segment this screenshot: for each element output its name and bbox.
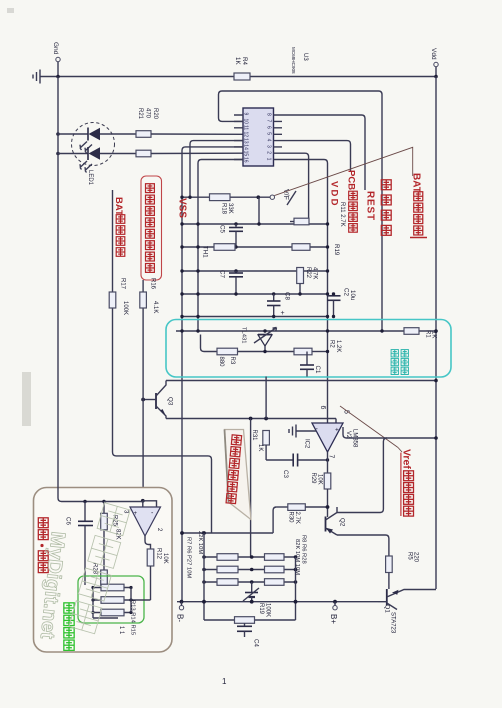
svg-text:14: 14 (243, 144, 249, 150)
svg-text:R2: R2 (329, 340, 335, 348)
svg-text:R13 R14 R15: R13 R14 R15 (130, 600, 136, 635)
wire route pin1 down long rail (288, 160, 328, 424)
resistor R12 10K (147, 548, 168, 600)
svg-text:R8 R6 R28: R8 R6 R28 (301, 535, 307, 564)
svg-text:6: 6 (266, 126, 272, 129)
label BAT temperature monitor red (410, 173, 427, 238)
svg-text:B-: B- (176, 614, 185, 622)
resistor R19 100K (235, 603, 271, 623)
resistor R5 220 (386, 552, 419, 589)
label left divider values (186, 531, 204, 578)
wire divider row3 (202, 580, 297, 584)
wire divider row2 (202, 568, 297, 572)
svg-text:3: 3 (266, 145, 272, 148)
IC U3 right pins (274, 115, 289, 160)
capacitor C3 (266, 454, 329, 479)
svg-text:470: 470 (145, 108, 151, 119)
svg-text:22K 10M: 22K 10M (197, 531, 203, 554)
svg-text:100K: 100K (265, 603, 271, 617)
node VF terminal (270, 189, 296, 205)
svg-text:220: 220 (413, 552, 419, 563)
resistor R9 (265, 566, 285, 573)
svg-text:LED1: LED1 (87, 170, 93, 186)
wire Q2 collector to upper node (337, 438, 387, 513)
svg-text:10u: 10u (349, 290, 356, 301)
label charge voltage-limit detect red box (225, 430, 251, 520)
svg-text:R20: R20 (152, 108, 158, 120)
svg-text:+: + (335, 427, 339, 434)
resistor R18 33K (210, 194, 234, 215)
svg-text:R19: R19 (333, 244, 340, 256)
svg-text:R31: R31 (251, 430, 257, 442)
svg-text:1K: 1K (257, 444, 263, 451)
svg-text:R7 R6 P27 10M: R7 R6 P27 10M (186, 537, 192, 578)
wire op-amp U4 output (145, 536, 151, 549)
svg-text:VDD: VDD (329, 181, 340, 208)
resistor R30 2.7K (277, 504, 330, 524)
svg-text:R22: R22 (305, 267, 311, 279)
svg-text:880: 880 (218, 357, 224, 368)
svg-text:REST: REST (365, 191, 376, 221)
op-amp IC2 (304, 423, 358, 459)
svg-text:9: 9 (243, 113, 249, 116)
IC U3 left pins (234, 115, 243, 160)
wire divider left rail (203, 533, 205, 620)
wire route pin4 right (288, 141, 351, 171)
ground (33, 70, 40, 84)
svg-text:Vdd: Vdd (430, 48, 437, 60)
svg-text:Gnd: Gnd (52, 42, 59, 55)
label regulated reference voltage teal (391, 350, 408, 375)
resistor R17 100K (109, 278, 128, 315)
svg-text:C6: C6 (65, 517, 72, 525)
svg-text:R1: R1 (425, 330, 431, 338)
svg-text:R30: R30 (288, 512, 294, 524)
resistor R13 (101, 584, 124, 591)
svg-text:6: 6 (319, 406, 326, 410)
svg-text:TL431: TL431 (241, 327, 247, 343)
wire bus2 thermistor line (180, 245, 329, 248)
svg-text:IC2: IC2 (304, 439, 310, 449)
resistor R26 (92, 563, 108, 590)
svg-text:R4: R4 (241, 57, 248, 65)
svg-text:4.7K: 4.7K (312, 267, 318, 279)
wire right Vdd rail down (435, 77, 437, 590)
diode LED top (56, 128, 136, 154)
wire R21 to IC pin15 (151, 152, 243, 154)
wire lower regulator line (201, 335, 330, 354)
capacitor C2 10u (327, 288, 356, 318)
resistor R14 (101, 597, 124, 604)
IC U3 label MC68HC908 (291, 47, 308, 74)
wire op-amp U4 top node (102, 499, 156, 507)
svg-text:R16: R16 (150, 278, 156, 290)
svg-text:VSS: VSS (177, 198, 188, 218)
top supply wire (40, 76, 436, 78)
wire op-amp plus input line (166, 406, 350, 424)
wire sampling mid rail drop (250, 419, 252, 558)
wire op-amp output (327, 452, 329, 473)
wire R17 to lower section (113, 452, 212, 533)
wire bus5 (180, 315, 329, 318)
resistor R7 (217, 554, 238, 561)
ground at op-amp inverting input (289, 425, 317, 438)
svg-text:33K: 33K (227, 203, 233, 214)
svg-text:+: + (134, 511, 138, 517)
wire battery main line (177, 600, 378, 604)
watermark digital home outline (97, 503, 130, 536)
svg-text:4: 4 (266, 139, 272, 142)
svg-text:MC68HC908: MC68HC908 (291, 47, 296, 74)
svg-text:100K: 100K (122, 301, 128, 315)
svg-text:C5: C5 (219, 225, 226, 233)
label limit current constant current red (38, 518, 48, 528)
label charge control red (381, 180, 391, 190)
transistor Q3 (141, 381, 173, 419)
resistor R16 4.1K (140, 278, 158, 313)
svg-text:R21: R21 (137, 108, 143, 120)
capacitor C1 (300, 352, 321, 377)
wire R17 branch (112, 190, 114, 452)
svg-text:82K 10M 10M: 82K 10M 10M (294, 539, 300, 575)
label current sampling green (64, 603, 74, 613)
node B- terminal (176, 602, 185, 623)
resistor R19 (292, 244, 340, 256)
svg-text:R3: R3 (229, 357, 235, 365)
capacitor C6 (65, 500, 94, 585)
svg-text:1K: 1K (431, 331, 437, 338)
svg-text:C7: C7 (219, 270, 226, 278)
svg-text:Q2: Q2 (339, 518, 346, 527)
svg-text:B+: B+ (329, 614, 338, 624)
capacitor C7 (219, 270, 244, 294)
svg-text:STA723: STA723 (390, 612, 396, 634)
resistor R21 (136, 108, 151, 157)
node Gnd terminal (52, 42, 60, 78)
svg-text:BAT: BAT (411, 173, 422, 193)
svg-text:11: 11 (243, 125, 249, 130)
wire route pin14 down long left rail (182, 147, 243, 602)
svg-text:1.2K: 1.2K (335, 340, 341, 352)
svg-text:10K: 10K (317, 474, 323, 485)
wire bus3 (180, 269, 329, 272)
wire Q3 collector line below cyan box (166, 379, 438, 383)
IC U3 pin numbers left 9-16 (243, 113, 249, 163)
transistor Q1 STA723 (378, 589, 436, 634)
wire VF bus (180, 195, 270, 199)
svg-text:5: 5 (266, 132, 272, 135)
resistor R27 (217, 579, 238, 586)
wire route pin8 right (288, 115, 365, 190)
svg-text:1: 1 (266, 158, 272, 161)
wire route pin10 loop over IC to right column (219, 91, 383, 331)
battery cell symbol (243, 588, 259, 602)
svg-text:8: 8 (266, 113, 272, 116)
wire R20 to IC pin12 (151, 133, 243, 135)
resistor R11 body (290, 218, 309, 225)
svg-text:R18: R18 (221, 203, 227, 215)
wire bus1 (180, 222, 329, 225)
capacitor C8 electrolytic (267, 292, 291, 317)
wire Q2 emitter to R5 (337, 535, 389, 556)
wire sampling row3 (91, 611, 132, 614)
resistor R20 (136, 108, 158, 137)
resistor R28 (265, 579, 285, 586)
node Vdd terminal (430, 48, 438, 78)
svg-text:Q1: Q1 (384, 605, 391, 614)
resistor R2 1.2K (294, 340, 341, 355)
svg-text:10: 10 (243, 119, 249, 125)
transistor Q2 (326, 507, 346, 535)
wire divider right rail (295, 557, 297, 620)
regulator TL431 (241, 327, 277, 352)
IC U3 pin numbers right 8-1 (266, 113, 272, 161)
wire annotation diagonal from VF to BAT temp label (274, 147, 412, 195)
resistor R1 1K (404, 328, 437, 339)
svg-text:C1: C1 (314, 366, 321, 374)
resistor R15 (101, 609, 124, 616)
svg-text:7: 7 (266, 120, 272, 123)
svg-text:1 1: 1 1 (118, 626, 124, 635)
wire sampling row1 (91, 586, 132, 589)
label charge cutoff current detect red box (141, 176, 162, 280)
current sampling green box (78, 576, 144, 623)
resistor R4 1K (234, 57, 250, 80)
wire route pin2 right (288, 153, 309, 218)
wire op-amp pin5 to Vdd rail (343, 427, 438, 440)
IC U3 microcontroller body (243, 108, 274, 166)
scan artifact left edge (22, 372, 31, 426)
wire route pin16 down to regulator bus (198, 160, 243, 332)
LED1 dashed circle (72, 123, 115, 186)
svg-text:10K: 10K (162, 553, 168, 564)
svg-text:PCB: PCB (346, 170, 357, 190)
svg-text:BAT: BAT (113, 197, 124, 216)
wire R16 branch (142, 280, 144, 501)
svg-text:2.7K: 2.7K (294, 512, 300, 524)
wire Gnd rail into box (58, 77, 104, 502)
cyan highlight box (166, 320, 451, 378)
wire R19 line (204, 619, 296, 621)
capacitor C5 (219, 224, 244, 247)
resistor R31 1K (251, 430, 269, 461)
svg-text:U3: U3 (302, 53, 308, 61)
svg-text:R5: R5 (407, 552, 413, 560)
op-amp U4 (123, 507, 163, 536)
svg-text:C2: C2 (343, 288, 350, 296)
svg-text:Q3: Q3 (167, 397, 174, 406)
wire divider mid rail lower (251, 582, 253, 592)
svg-text:4.1K: 4.1K (152, 301, 158, 313)
svg-text:R12: R12 (156, 548, 162, 560)
diode LED bottom (56, 147, 136, 173)
label Vref reference voltage red (398, 448, 413, 517)
svg-text:R19: R19 (258, 603, 264, 615)
svg-text:1K: 1K (234, 57, 241, 65)
wire sampling rails (93, 588, 131, 619)
resistor R6 (217, 566, 238, 573)
svg-text:R29: R29 (310, 473, 316, 485)
label R11 2.7K (339, 202, 345, 227)
resistor R25 82K (101, 502, 121, 571)
svg-text:C3: C3 (282, 470, 289, 478)
svg-text:13: 13 (243, 138, 249, 144)
wire regulator bus (176, 329, 438, 333)
wire VF to bus1 stub (258, 197, 260, 224)
resistor R22 4.7K (297, 267, 318, 294)
node B+ terminal (329, 602, 338, 625)
scan artifact top left (7, 8, 14, 13)
svg-text:R28: R28 (92, 563, 98, 575)
wire current sense line (180, 531, 273, 535)
svg-text:C4: C4 (253, 639, 260, 647)
wire divider row1 (202, 555, 297, 559)
svg-text:12: 12 (243, 132, 249, 138)
svg-text:C8: C8 (284, 292, 291, 300)
svg-text:15: 15 (243, 151, 249, 157)
wire sampling row2 (91, 598, 150, 601)
wire TL431 anode drop (265, 377, 267, 419)
svg-text:TH1: TH1 (202, 246, 209, 258)
resistor R3 880 (217, 348, 238, 367)
svg-text:2: 2 (266, 151, 272, 154)
thermistor TH1 (202, 244, 236, 259)
capacitor C4 electrolytic (237, 623, 260, 647)
svg-text:Vref: Vref (401, 449, 413, 469)
wire annotation diagonal to Vref label (340, 406, 398, 448)
svg-text:7: 7 (328, 455, 335, 459)
svg-text:16: 16 (243, 157, 249, 163)
svg-text:R17: R17 (120, 278, 126, 290)
svg-text:R11 2.7K: R11 2.7K (339, 202, 345, 227)
svg-text:1: 1 (222, 677, 227, 686)
wire bus4 (180, 292, 329, 295)
callout box current limit stage (34, 488, 173, 653)
wire R30 drop to current line (273, 507, 277, 533)
resistor R8 (265, 554, 285, 561)
resistor R29 10K (310, 473, 331, 518)
label right divider values (294, 535, 307, 575)
wire route pin13 to VF line (190, 141, 243, 198)
